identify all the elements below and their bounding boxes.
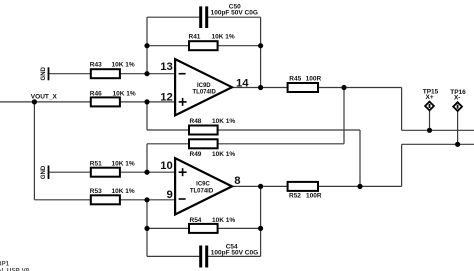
svg-text:13: 13 xyxy=(160,61,173,73)
op-amp IC9D minus input mark xyxy=(179,73,186,75)
svg-text:14: 14 xyxy=(236,77,249,89)
junction R49 tap xyxy=(341,85,346,90)
svg-text:10: 10 xyxy=(160,160,173,172)
junction R41 right xyxy=(258,43,263,48)
resistor R48 xyxy=(189,126,218,135)
svg-text:R43: R43 xyxy=(90,62,102,69)
label R54 xyxy=(190,217,236,224)
ground GND1 bar xyxy=(48,67,50,80)
wire GND2 to R51 xyxy=(49,171,91,173)
svg-text:R51: R51 xyxy=(90,161,102,168)
wire C50 right xyxy=(208,16,261,18)
svg-text:R41: R41 xyxy=(189,34,201,41)
junction VOUT_X xyxy=(32,99,37,104)
label R49 xyxy=(190,151,236,158)
wire R49 left xyxy=(147,143,189,145)
wire C50 left xyxy=(147,16,199,18)
pin number 13 xyxy=(160,61,173,73)
label R48 xyxy=(190,118,236,125)
resistor R45 xyxy=(288,83,318,92)
svg-text:10K 1%: 10K 1% xyxy=(112,161,135,168)
pin number 10 xyxy=(160,160,173,172)
wire R46 to pin12 xyxy=(120,101,175,103)
wire R49 to pin10 vertical xyxy=(146,144,148,172)
label R45 xyxy=(289,75,321,82)
svg-text:AL USB V8: AL USB V8 xyxy=(0,267,30,271)
wire R49 riser to pin14 net xyxy=(343,88,345,144)
wire net X+ to edge xyxy=(402,129,474,131)
op-amp IC9D plus input mark xyxy=(179,98,187,106)
testpoint TP16 diamond xyxy=(453,102,462,111)
junction pin8 rail xyxy=(258,184,263,189)
wire right rail top xyxy=(260,17,262,87)
svg-text:9: 9 xyxy=(167,189,173,201)
svg-text:10K 1%: 10K 1% xyxy=(212,217,235,224)
wire R54 left xyxy=(147,227,189,229)
label C50 xyxy=(211,3,258,16)
svg-text:VOUT_X: VOUT_X xyxy=(31,93,58,100)
wire net X- to edge xyxy=(402,143,474,145)
resistor R54 xyxy=(189,224,218,233)
op-amp IC9C minus input mark xyxy=(179,198,186,200)
pin number 12 xyxy=(160,91,173,103)
junction pin14 rail xyxy=(258,85,263,90)
label R43 xyxy=(90,62,135,69)
wire pin12 to R48 vertical xyxy=(146,102,148,130)
svg-text:10K 1%: 10K 1% xyxy=(212,34,235,41)
svg-text:IC9C: IC9C xyxy=(196,182,210,188)
pin number 9 xyxy=(167,189,173,201)
wire R48 drop to pin8 net xyxy=(359,130,361,186)
resistor R53 xyxy=(91,195,120,204)
wire right rail bottom xyxy=(260,186,262,256)
ground GND2 label xyxy=(41,165,47,179)
op-amp U2 IC9C xyxy=(175,158,232,214)
junction R54 right xyxy=(258,226,263,231)
label R46 xyxy=(90,90,136,97)
label R53 xyxy=(90,188,135,195)
label IC9C xyxy=(190,182,214,195)
wire R53 to pin9 xyxy=(120,199,175,201)
junction pin12 xyxy=(144,99,149,104)
wire VOUT_X to R46 xyxy=(0,101,91,103)
svg-text:R53: R53 xyxy=(90,188,102,195)
svg-text:8: 8 xyxy=(234,175,240,187)
resistor R52 xyxy=(288,182,318,191)
wire pin14 output xyxy=(232,87,288,89)
svg-text:100pF 50V C0G: 100pF 50V C0G xyxy=(211,249,258,256)
svg-text:TL074ID: TL074ID xyxy=(190,188,214,194)
wire pin8 output xyxy=(232,185,288,187)
wire R43 to pin13 xyxy=(120,73,175,75)
svg-text:100R: 100R xyxy=(306,75,322,82)
ground GND2 bar xyxy=(48,166,50,180)
label TP15 xyxy=(423,88,439,101)
wire R45 right xyxy=(318,87,402,89)
wire pin9 feedback vertical xyxy=(146,200,148,257)
label R41 xyxy=(189,34,235,41)
svg-text:10K 1%: 10K 1% xyxy=(212,151,235,158)
svg-text:TL074ID: TL074ID xyxy=(193,89,217,95)
pin number 8 xyxy=(234,175,240,187)
svg-text:12: 12 xyxy=(160,91,173,103)
wire VOUT_X vertical xyxy=(33,102,35,200)
svg-text:10K 1%: 10K 1% xyxy=(112,62,135,69)
resistor R51 xyxy=(91,168,120,177)
wire R49 right xyxy=(218,143,344,145)
wire left rail top xyxy=(146,17,148,73)
wire TP16 stem xyxy=(457,111,459,144)
label C54 xyxy=(211,244,258,257)
svg-text:10K 1%: 10K 1% xyxy=(112,188,135,195)
label bottom left second line xyxy=(0,267,30,271)
capacitor C50 xyxy=(199,6,208,28)
capacitor C54 xyxy=(199,246,208,268)
resistor R46 xyxy=(91,97,120,106)
svg-text:R46: R46 xyxy=(90,90,102,97)
pin number 14 xyxy=(236,77,249,89)
resistor R49 xyxy=(189,139,218,148)
wire C54 left xyxy=(147,255,199,257)
label TP16 xyxy=(450,89,466,101)
wire right riser X- xyxy=(401,144,403,186)
op-amp IC9C plus input mark xyxy=(179,168,187,176)
junction R41 left xyxy=(144,43,149,48)
wire R48 left xyxy=(147,129,189,131)
svg-text:100R: 100R xyxy=(306,193,322,200)
junction pin10 xyxy=(144,170,149,175)
label R51 xyxy=(90,161,135,168)
label IC9D xyxy=(193,83,217,95)
svg-text:100pF 50V C0G: 100pF 50V C0G xyxy=(211,10,258,17)
junction TP15 xyxy=(427,128,432,133)
junction R54 left xyxy=(144,226,149,231)
svg-text:10K 1%: 10K 1% xyxy=(212,118,235,125)
resistor R43 xyxy=(91,69,120,78)
junction pin13 xyxy=(144,71,149,76)
svg-text:GND: GND xyxy=(41,165,47,179)
resistor R41 xyxy=(189,41,218,50)
ground GND1 label xyxy=(41,66,47,80)
svg-text:X+: X+ xyxy=(426,94,434,101)
label BP1 bottom left xyxy=(0,260,10,267)
wire R52 right xyxy=(318,185,402,187)
wire TP15 stem xyxy=(429,110,431,130)
junction TP16 xyxy=(455,142,460,147)
svg-text:10K 1%: 10K 1% xyxy=(113,90,136,97)
svg-text:X-: X- xyxy=(454,94,461,101)
junction R48 tap xyxy=(357,184,362,189)
wire GND1 to R43 xyxy=(49,73,91,75)
junction pin9 xyxy=(144,197,149,202)
wire VOUT_X to R53 xyxy=(34,199,90,201)
wire R41 left xyxy=(147,45,189,47)
op-amp U1 IC9D xyxy=(175,59,232,115)
svg-text:R49: R49 xyxy=(190,151,202,158)
svg-text:IC9D: IC9D xyxy=(197,83,211,89)
wire C54 right xyxy=(208,255,261,257)
net label VOUT_X xyxy=(31,93,58,100)
wire right drop X+ xyxy=(401,88,403,131)
wire R51 to pin10 xyxy=(120,171,175,173)
svg-text:R54: R54 xyxy=(190,217,202,224)
wire R41 right xyxy=(218,45,261,47)
svg-text:BP1: BP1 xyxy=(0,260,10,267)
testpoint TP15 diamond xyxy=(425,102,434,111)
svg-text:GND: GND xyxy=(41,66,47,80)
wire R48 right xyxy=(218,129,360,131)
svg-text:R52: R52 xyxy=(289,193,301,200)
wire R54 right xyxy=(218,227,261,229)
svg-text:R48: R48 xyxy=(190,118,202,125)
label R52 xyxy=(289,193,322,200)
svg-text:R45: R45 xyxy=(289,75,301,82)
